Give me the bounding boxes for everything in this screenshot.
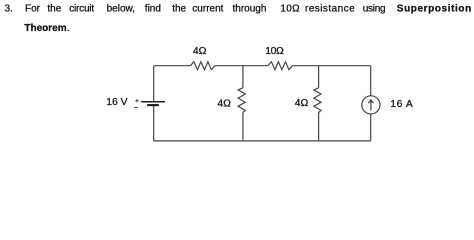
- svg-text:find: find: [145, 4, 161, 15]
- svg-text:using: using: [363, 4, 386, 15]
- svg-text:resistance: resistance: [305, 4, 355, 15]
- svg-text:16 A: 16 A: [390, 99, 413, 110]
- current source I1 arrow shaft: [370, 100, 372, 110]
- svg-text:Superposition: Superposition: [397, 4, 472, 15]
- wire top-left segment: [154, 65, 191, 67]
- wire branch1 upper: [242, 66, 244, 88]
- wire right edge lower: [370, 114, 372, 141]
- wire branch2 upper: [318, 66, 320, 88]
- svg-text:10Ω: 10Ω: [280, 4, 300, 15]
- svg-text:the: the: [47, 4, 61, 15]
- svg-text:16 V: 16 V: [106, 97, 127, 108]
- battery V1 long plate: [141, 101, 165, 103]
- resistor R2 10ohm horizontal zigzag: [268, 62, 293, 70]
- svg-text:4Ω: 4Ω: [193, 46, 207, 57]
- wire bottom: [154, 140, 371, 142]
- wire right edge upper: [370, 66, 372, 96]
- svg-text:the: the: [172, 4, 186, 15]
- current source I1 arrowhead: [368, 100, 373, 103]
- svg-text:through: through: [233, 4, 267, 15]
- battery V1 short plate: [147, 104, 159, 106]
- battery plus sign: [135, 99, 138, 102]
- svg-text:below,: below,: [107, 4, 135, 15]
- wire branch1 lower: [242, 113, 244, 141]
- svg-text:.: .: [67, 23, 70, 34]
- wire left edge lower: [153, 105, 155, 141]
- resistor R4 4ohm vertical zigzag: [314, 88, 321, 113]
- battery minus sign: [134, 107, 137, 109]
- current source I1 circle: [362, 96, 380, 114]
- svg-text:circuit: circuit: [69, 4, 94, 15]
- svg-text:10Ω: 10Ω: [265, 46, 284, 57]
- wire top-right segment: [292, 65, 370, 67]
- svg-text:Theorem: Theorem: [24, 23, 66, 34]
- wire left edge upper: [153, 66, 155, 102]
- wire top-middle segment: [215, 65, 268, 67]
- resistor R1 4ohm horizontal zigzag: [190, 62, 215, 70]
- svg-text:4Ω: 4Ω: [295, 98, 309, 109]
- resistor R3 4ohm vertical zigzag: [238, 88, 245, 113]
- svg-text:3.: 3.: [5, 4, 13, 15]
- svg-text:current: current: [192, 4, 223, 15]
- svg-text:For: For: [25, 4, 41, 15]
- svg-text:4Ω: 4Ω: [217, 98, 231, 109]
- wire branch2 lower: [318, 113, 320, 141]
